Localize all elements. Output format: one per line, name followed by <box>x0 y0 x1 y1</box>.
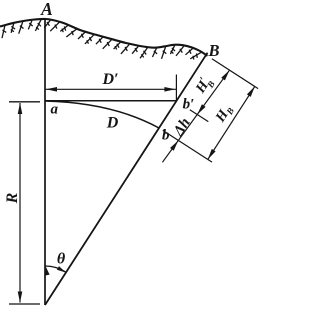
svg-text:a: a <box>50 101 58 117</box>
svg-text:R: R <box>4 192 21 204</box>
svg-text:θ: θ <box>57 251 66 268</box>
svg-text:b: b <box>162 127 170 143</box>
svg-text:D: D <box>106 115 119 132</box>
svg-text:B: B <box>207 41 219 60</box>
svg-text:A: A <box>40 0 53 19</box>
svg-text:b′: b′ <box>183 96 195 112</box>
svg-text:D′: D′ <box>101 71 118 88</box>
